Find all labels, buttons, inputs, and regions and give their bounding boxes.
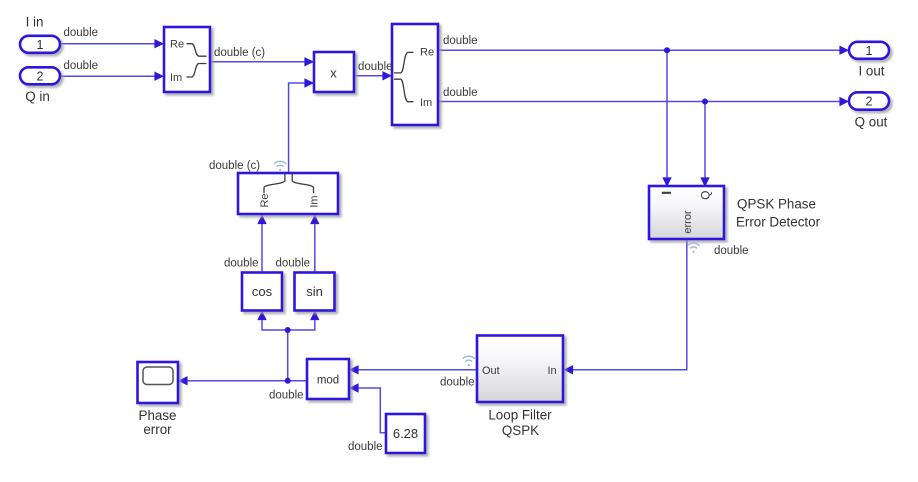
svg-text:sin: sin — [306, 284, 323, 299]
svg-text:double: double — [224, 258, 259, 270]
svg-text:Error Detector: Error Detector — [736, 215, 821, 230]
svg-text:error: error — [143, 422, 172, 437]
svg-text:Q out: Q out — [855, 115, 888, 130]
svg-text:Q in: Q in — [25, 89, 50, 104]
svg-text:Re: Re — [259, 193, 271, 207]
svg-text:Im: Im — [170, 72, 182, 84]
svg-text:Re: Re — [420, 47, 434, 59]
svg-text:double: double — [440, 377, 475, 389]
svg-text:Im: Im — [420, 97, 432, 109]
svg-text:1: 1 — [37, 38, 44, 52]
svg-text:cos: cos — [252, 284, 273, 299]
svg-text:Phase: Phase — [139, 408, 177, 423]
svg-text:double: double — [358, 61, 393, 73]
svg-text:2: 2 — [866, 95, 873, 109]
svg-text:double: double — [443, 35, 478, 47]
svg-text:QPSK Phase: QPSK Phase — [737, 197, 816, 212]
svg-text:2: 2 — [37, 69, 44, 83]
svg-text:1: 1 — [866, 44, 873, 58]
svg-text:Loop Filter: Loop Filter — [488, 408, 552, 423]
svg-text:double: double — [64, 60, 99, 72]
svg-text:I in: I in — [26, 15, 44, 30]
svg-text:Out: Out — [482, 365, 500, 377]
svg-text:double: double — [276, 258, 311, 270]
svg-text:Q: Q — [699, 191, 713, 200]
svg-text:I out: I out — [858, 64, 884, 79]
svg-text:double: double — [714, 245, 749, 257]
svg-text:6.28: 6.28 — [393, 426, 418, 441]
svg-text:Re: Re — [170, 39, 184, 51]
svg-text:double: double — [64, 27, 99, 39]
svg-text:double: double — [443, 87, 478, 99]
svg-text:mod: mod — [317, 375, 339, 387]
svg-text:double: double — [348, 441, 383, 453]
svg-text:In: In — [548, 365, 557, 377]
svg-text:QSPK: QSPK — [502, 423, 539, 438]
svg-text:double: double — [269, 390, 304, 402]
svg-text:error: error — [682, 210, 694, 234]
svg-text:double (c): double (c) — [214, 47, 265, 59]
svg-text:x: x — [330, 66, 337, 81]
svg-text:Im: Im — [308, 195, 320, 207]
svg-text:double (c): double (c) — [209, 160, 260, 172]
